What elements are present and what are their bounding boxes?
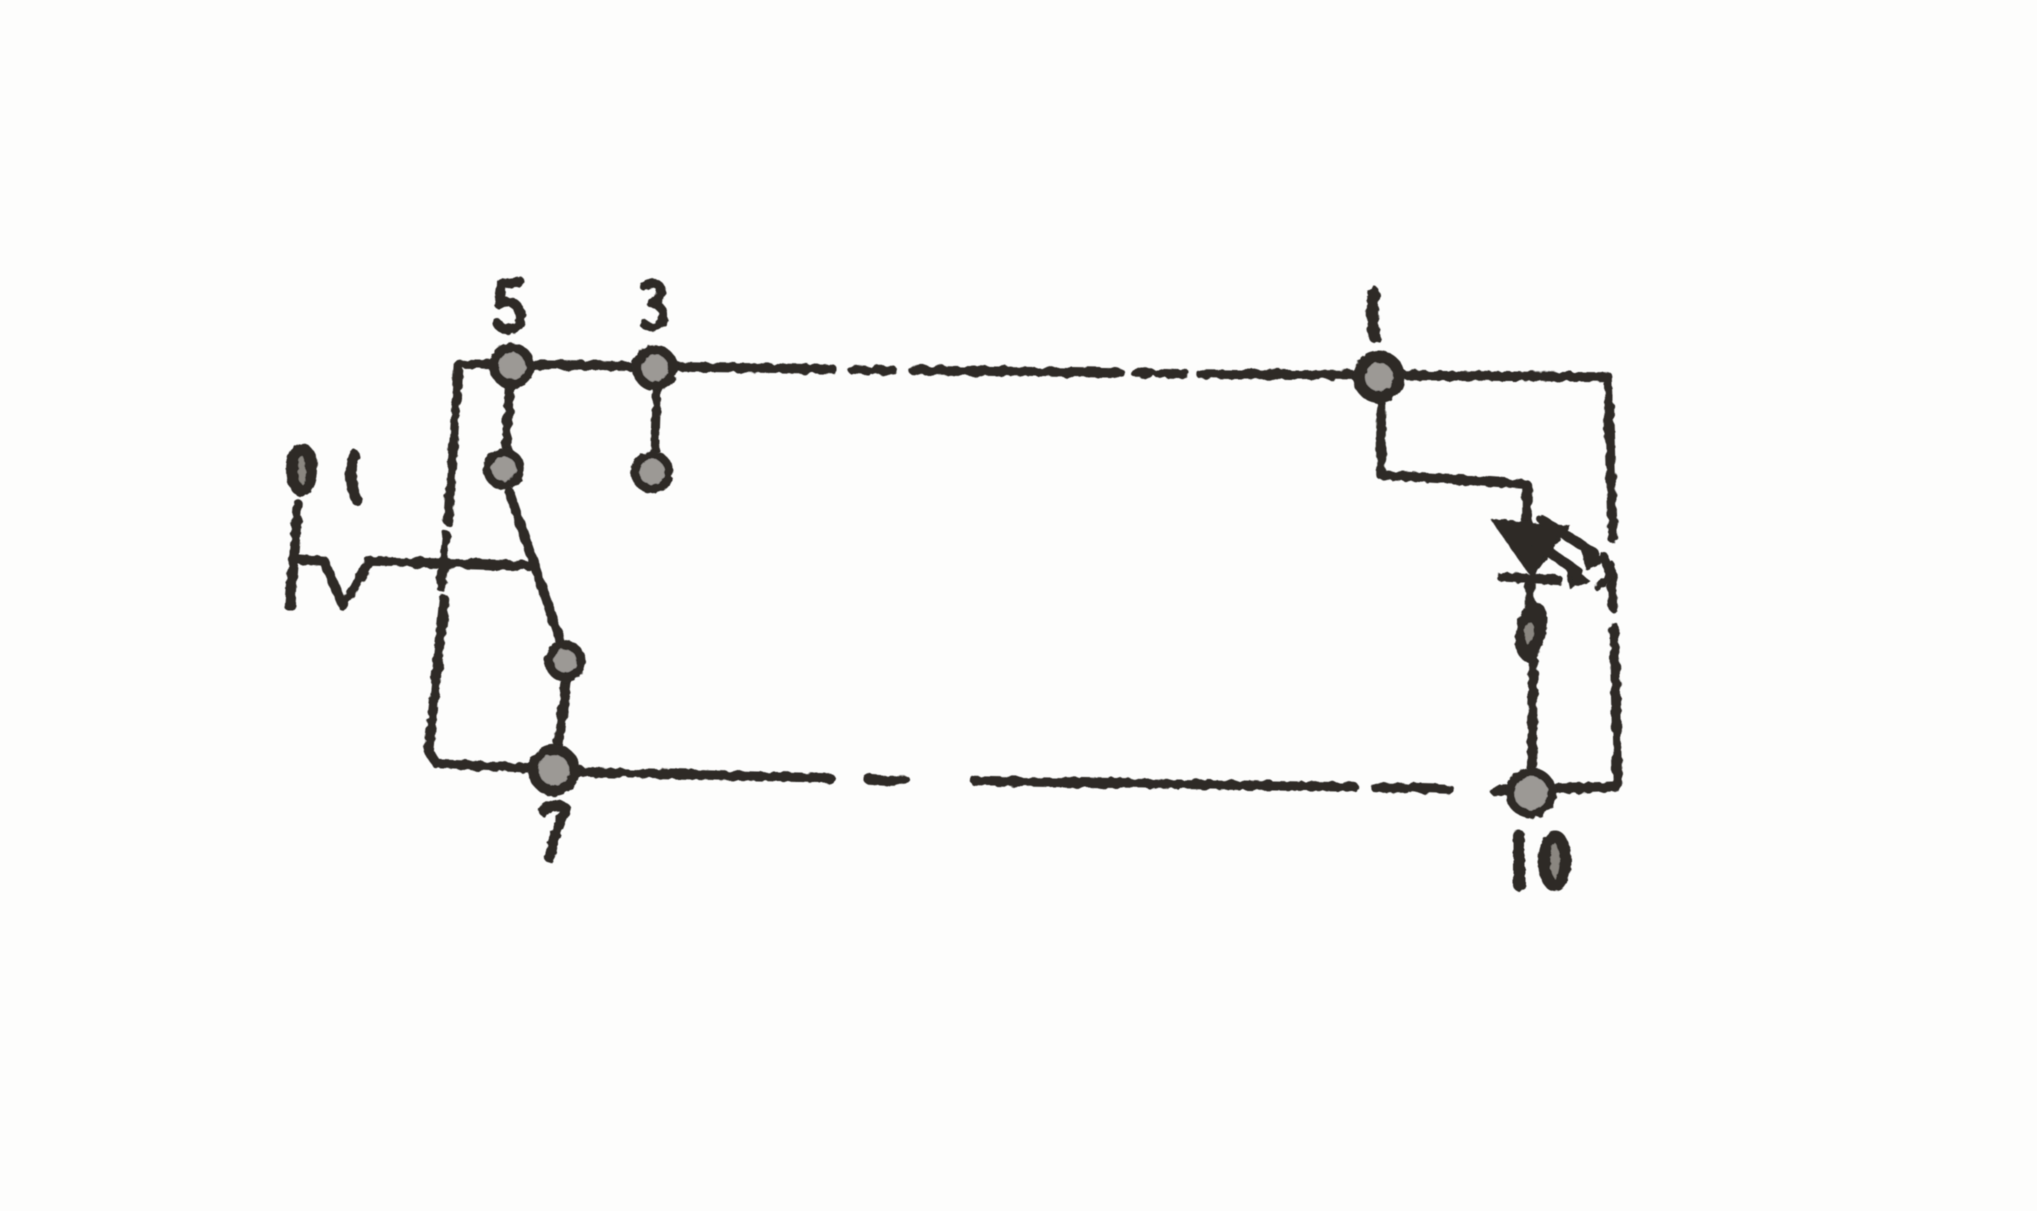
LED arrow hook mark bbox=[1598, 556, 1610, 587]
actuator cross bar bbox=[441, 535, 446, 587]
label 1 (top right) bbox=[1372, 295, 1375, 337]
wire bottom right corner to node 10 bbox=[1495, 786, 1618, 791]
terminal node 1 bbox=[1359, 357, 1399, 397]
wire right vertical lower bbox=[1614, 627, 1618, 786]
wire right vertical middle dash bbox=[1611, 566, 1613, 607]
wire node1 jog down to LED bbox=[1381, 404, 1527, 521]
wire node3 to open contact bbox=[655, 391, 657, 449]
label 7 bbox=[544, 805, 566, 857]
moving contact tip bbox=[549, 645, 581, 677]
wire LED cathode to node 10 bbox=[1530, 583, 1533, 768]
LED D1 triangle bbox=[1494, 521, 1567, 575]
wire contact to node 7 bbox=[558, 680, 566, 747]
label 10: digit 0 bbox=[1545, 837, 1566, 886]
terminal node 10 bbox=[1510, 772, 1552, 814]
wire spring to moving contact bbox=[370, 561, 533, 566]
wire left vertical from top corner bbox=[448, 364, 459, 521]
wire left lower vertical to node 7 bbox=[429, 599, 580, 770]
switch moving contact blade bbox=[509, 491, 561, 643]
wire top mid solid bbox=[913, 370, 1120, 373]
LED arrow 2 bbox=[1532, 540, 1578, 572]
wire top horizontal left (corner to node 3 region) bbox=[459, 364, 832, 369]
wire node5 to pivot contact bbox=[506, 389, 510, 447]
bead on lamp wire bbox=[1515, 602, 1547, 663]
open contact below 3 bbox=[635, 455, 669, 489]
wire top right solid into node 1 and to right corner bbox=[1201, 374, 1608, 377]
label 10: digit 1 bbox=[1513, 836, 1525, 885]
LED arrow 1 bbox=[1542, 520, 1594, 553]
wire top dash segment b bbox=[1136, 373, 1185, 374]
label 1 (left) bbox=[351, 455, 357, 500]
label 3 bbox=[644, 283, 663, 327]
pivot contact below 5 bbox=[488, 453, 521, 486]
label 5 bbox=[498, 282, 521, 330]
contact node 3 bbox=[637, 350, 673, 386]
wire right vertical upper bbox=[1608, 377, 1613, 539]
contact node 5 bbox=[494, 348, 530, 384]
wire top dash segment a bbox=[852, 369, 892, 370]
spring return symbol bbox=[290, 504, 370, 607]
wire bottom dashed: node7 to node10 bbox=[580, 772, 830, 778]
wire bottom dash d bbox=[1376, 788, 1449, 789]
label 0 (left) bbox=[292, 450, 312, 491]
terminal node 7 bbox=[534, 750, 575, 791]
wire bottom dash c bbox=[868, 779, 905, 780]
wire bottom solid mid bbox=[975, 781, 1354, 787]
LED cathode bar bbox=[1502, 577, 1558, 580]
